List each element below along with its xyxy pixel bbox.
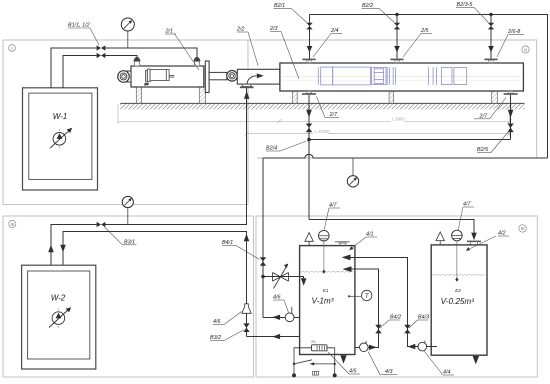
level device E1 — [319, 230, 330, 273]
label 2/1 — [165, 29, 200, 71]
pump 4/3 — [360, 341, 369, 352]
label B2/2 — [362, 3, 395, 23]
label 4/5 — [328, 352, 361, 375]
vent E1 — [305, 233, 313, 246]
return pipe W-2 — [63, 231, 247, 303]
heater R1 — [312, 340, 328, 351]
svg-text:Е2: Е2 — [455, 288, 461, 293]
label 4/3 — [368, 352, 397, 375]
REGION IV : tanks E1 E2 — [222, 158, 509, 377]
label 4/1 — [349, 232, 377, 251]
dimension line L 9900 — [118, 105, 512, 125]
badge IV — [519, 225, 526, 232]
transfer pipe 4/7 to E2 — [309, 220, 474, 233]
svg-text:4/4: 4/4 — [443, 370, 451, 376]
svg-text:2/4: 2/4 — [330, 28, 339, 34]
drain column left with valve B2/4 — [306, 95, 312, 220]
svg-text:IV: IV — [521, 226, 525, 231]
label B4/3 — [409, 314, 429, 328]
valve B4/3 — [404, 325, 410, 334]
svg-text:4/2: 4/2 — [498, 231, 506, 237]
svg-text:II: II — [524, 47, 527, 52]
E1 inlet line upper from B4/3 — [342, 255, 418, 347]
manifold pipe top — [310, 15, 548, 159]
REGION II : long vessel — [263, 2, 547, 220]
arrow left pump line — [272, 315, 280, 320]
svg-text:4/7: 4/7 — [463, 202, 471, 208]
column valve B2/2 — [394, 15, 400, 59]
svg-text:L 12000: L 12000 — [315, 129, 331, 134]
svg-text:В3/2: В3/2 — [210, 335, 221, 341]
label B2/5 — [477, 131, 509, 153]
svg-text:4/7: 4/7 — [329, 203, 337, 209]
label 4/6 pump — [273, 295, 289, 313]
svg-text:В2/5: В2/5 — [477, 147, 489, 153]
vent E2 — [436, 232, 444, 245]
pump symbol W-1 — [50, 128, 72, 148]
hydraulic cylinder 2/1 — [118, 61, 238, 93]
label 2/6-8 — [497, 29, 524, 57]
svg-text:W-2: W-2 — [51, 294, 66, 303]
svg-text:4/6: 4/6 — [273, 295, 281, 301]
badge II — [522, 46, 529, 53]
frame region I — [3, 40, 248, 205]
label B1/1 1/2 — [68, 23, 99, 46]
svg-text:III: III — [11, 222, 15, 227]
arrow right pump 4/3 outlet — [369, 345, 377, 350]
valve B1/1 — [97, 45, 106, 50]
label B4/1 — [222, 240, 260, 260]
svg-text:2/7: 2/7 — [329, 112, 338, 118]
arrow down into E1 — [301, 278, 307, 285]
svg-text:4/6: 4/6 — [213, 319, 221, 325]
svg-text:2/2: 2/2 — [236, 27, 245, 33]
label 2/7 left — [317, 97, 340, 119]
top nozzle 2/4 — [302, 59, 315, 63]
svg-text:В2/4: В2/4 — [266, 146, 277, 152]
pump 4/6 — [285, 307, 294, 322]
label 2/3 — [269, 26, 299, 79]
valve B4/2 — [375, 325, 381, 334]
arrow left on drain — [272, 334, 280, 339]
column valve B2/1 — [306, 15, 312, 59]
frame region II — [257, 40, 537, 158]
svg-text:В4/2: В4/2 — [390, 314, 401, 320]
rod eye — [227, 71, 238, 82]
vessel support left — [292, 91, 297, 103]
valve B4/1 — [260, 257, 266, 266]
tank W-1 — [23, 88, 98, 190]
nozzle E2 — [467, 241, 481, 245]
arrow down into W-2 — [60, 245, 66, 253]
drain pipe from E1 — [247, 336, 300, 338]
badge I — [9, 45, 16, 52]
pipe funnel to valve — [246, 313, 248, 336]
cross pipe B2/4-B2/5 — [309, 139, 511, 141]
return pipe with hop — [263, 157, 547, 159]
port fitting front — [134, 57, 141, 66]
svg-text:2/6: 2/6 — [144, 82, 149, 86]
drain column right with valve B2/5 — [507, 95, 513, 140]
level device E2 — [452, 230, 463, 282]
pump symbol W-2 — [49, 307, 71, 327]
arrow down into E2 nozzle — [471, 233, 477, 241]
pump 4/4 — [418, 341, 427, 351]
svg-text:Е1: Е1 — [323, 288, 329, 293]
pump 4/4 suction — [427, 346, 437, 348]
terminal dot left — [292, 373, 296, 377]
rod — [209, 72, 227, 79]
ground hatch band — [120, 103, 524, 109]
label 4/7 E2 — [458, 202, 474, 231]
label 4/2 — [466, 231, 509, 251]
T sensor — [348, 290, 372, 300]
junction dot — [395, 13, 398, 16]
centerline — [282, 75, 521, 77]
top nozzle 2/6-8 — [484, 59, 497, 63]
svg-text:2/1: 2/1 — [165, 29, 174, 35]
badge III — [9, 220, 16, 227]
vessel support right — [492, 91, 498, 103]
ram tube 2/2 — [237, 69, 317, 85]
needle valve feed line — [263, 277, 304, 280]
svg-text:4/1: 4/1 — [366, 232, 374, 238]
cylinder support left — [136, 87, 141, 103]
bottom nozzle left 2/7 — [302, 91, 316, 95]
lid E1 — [335, 241, 350, 245]
arrow left pump 4/4 outlet — [408, 344, 416, 349]
tank W-2 — [22, 265, 96, 369]
label B3/1 — [105, 227, 137, 246]
REGION I : power unit W-1 and cylinder — [23, 18, 318, 190]
pump 4/3 suction — [355, 346, 359, 348]
E1 drain arrow — [340, 355, 346, 363]
valve B3/1 — [97, 222, 106, 227]
junction dot — [489, 13, 492, 16]
svg-text:V-0.25m³: V-0.25m³ — [441, 297, 475, 306]
gauge M1 — [121, 18, 134, 48]
svg-text:L 9900: L 9900 — [392, 116, 405, 121]
tank E1 — [300, 246, 355, 355]
valve B1/2 — [97, 53, 106, 58]
svg-text:2/3: 2/3 — [269, 26, 278, 32]
column valve B2/3-5 — [488, 15, 494, 59]
arrow up on return — [244, 234, 250, 241]
pipe to cylinder — [105, 88, 246, 225]
valve B3/2 — [243, 323, 249, 332]
svg-text:2/6-8: 2/6-8 — [507, 29, 520, 35]
wire riser W-1 A — [51, 48, 97, 88]
frame region III — [3, 216, 254, 377]
tank E2 — [431, 245, 487, 355]
svg-text:R1: R1 — [312, 340, 316, 344]
svg-text:2/5: 2/5 — [420, 28, 429, 34]
arrow up on riser — [48, 245, 54, 253]
label 2/7 right — [474, 98, 506, 120]
needle valve — [273, 264, 289, 289]
switch arrowhead — [310, 362, 315, 365]
frame region IV — [256, 216, 537, 377]
E2 drain arrow — [473, 356, 479, 364]
E1 inlet line lower from B4/2 — [343, 266, 379, 347]
pump 4/6 line — [263, 316, 300, 318]
terminal dot right — [333, 373, 337, 377]
REGION III : power unit W-2 — [22, 88, 300, 369]
flange plate — [205, 61, 209, 93]
svg-text:В1/1, 1/2: В1/1, 1/2 — [68, 23, 90, 29]
label 4/4 — [424, 351, 454, 376]
label 2/5 — [403, 28, 432, 57]
vessel support middle — [389, 91, 394, 103]
label 2/2 — [236, 27, 258, 66]
wire line A to rear port — [105, 48, 197, 62]
label B3/2 — [210, 330, 244, 341]
plug symbol — [313, 371, 319, 375]
label 2/4 — [313, 28, 342, 57]
svg-text:В4/1: В4/1 — [222, 240, 233, 246]
junction dot riser — [261, 275, 265, 279]
label B2/1 — [274, 3, 307, 23]
svg-text:V-1m³: V-1m³ — [312, 297, 334, 306]
label B4/2 — [380, 314, 401, 328]
cylinder support right — [199, 87, 205, 103]
vessel body — [280, 63, 524, 91]
gauge M2 — [122, 196, 133, 224]
wire riser W-1 B — [63, 56, 97, 88]
label B2/4 — [266, 141, 307, 152]
svg-text:4/5: 4/5 — [349, 369, 357, 375]
svg-text:W-1: W-1 — [53, 112, 68, 121]
gauge M3 — [347, 158, 358, 187]
flow arrow into ram — [247, 73, 264, 85]
GROUND — [118, 103, 525, 136]
label 4/6 funnel — [213, 312, 242, 326]
drain flange under ram — [240, 84, 254, 88]
top nozzle 2/5 — [390, 59, 403, 63]
riser from return pipe — [262, 158, 264, 317]
vessel internals blue — [318, 67, 466, 85]
label 4/7 E1 — [324, 203, 340, 230]
heater wiring — [294, 348, 335, 374]
wire line B to front port — [105, 56, 137, 62]
label B2/3-5 — [456, 2, 488, 23]
piston internals — [144, 69, 175, 86]
svg-text:В4/3: В4/3 — [418, 314, 429, 320]
bottom nozzle right 2/7 — [504, 91, 518, 95]
riser arrow up at cylinder drain — [244, 91, 250, 98]
port fitting rear — [194, 57, 201, 66]
funnel sight glass — [242, 304, 251, 314]
supply pipe W-2 to cylinder drain — [51, 225, 97, 266]
dimension line L 12000 — [245, 110, 512, 137]
svg-text:I: I — [11, 46, 12, 51]
